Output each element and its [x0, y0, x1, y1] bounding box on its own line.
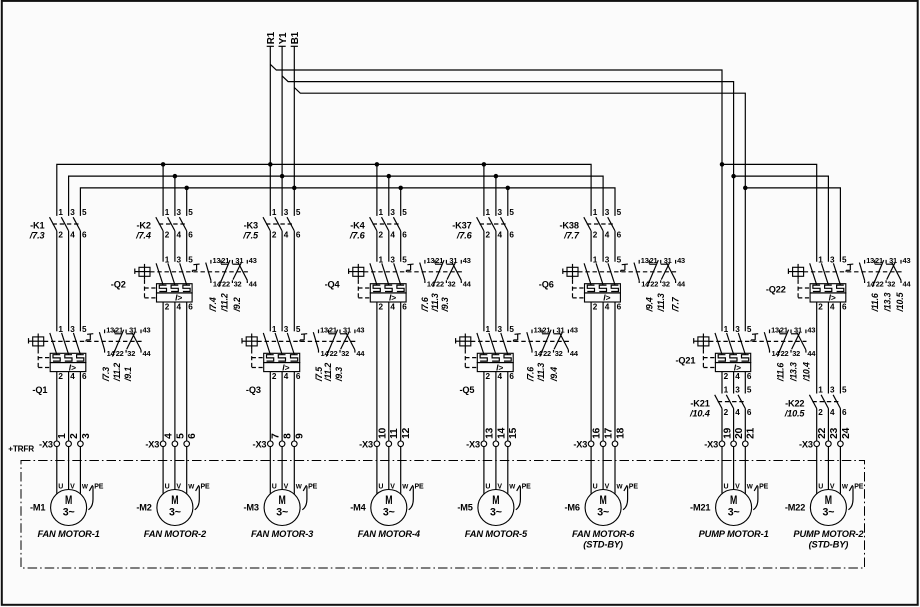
svg-text:PE: PE — [854, 484, 864, 491]
wire — [507, 231, 509, 331]
svg-text:3~: 3~ — [490, 506, 502, 518]
wire — [744, 372, 746, 394]
svg-text:/11.3: /11.3 — [536, 363, 546, 382]
svg-text:1: 1 — [486, 325, 491, 334]
svg-text:/11.2: /11.2 — [220, 293, 230, 312]
svg-text:1: 1 — [593, 255, 598, 264]
svg-text:I>: I> — [603, 293, 610, 303]
svg-text:2: 2 — [724, 408, 729, 417]
svg-text:-M3: -M3 — [244, 503, 259, 513]
svg-text:-M4: -M4 — [350, 503, 366, 513]
svg-text:1: 1 — [272, 325, 277, 334]
svg-text:5: 5 — [188, 255, 193, 264]
svg-text:2: 2 — [379, 302, 384, 311]
svg-text:2: 2 — [486, 231, 491, 240]
circuit breaker Q2 — [111, 255, 248, 311]
svg-text:U: U — [58, 484, 63, 491]
terminal X30:1-3 — [39, 433, 92, 450]
svg-text:2: 2 — [593, 231, 598, 240]
svg-text:12: 12 — [401, 427, 412, 439]
svg-text:-Q6: -Q6 — [539, 280, 554, 290]
svg-text:20: 20 — [734, 427, 745, 439]
wire — [721, 409, 723, 442]
svg-text:5: 5 — [617, 255, 622, 264]
svg-text:4: 4 — [830, 408, 835, 417]
svg-text:/7.4: /7.4 — [135, 231, 151, 241]
svg-text:FAN MOTOR-1: FAN MOTOR-1 — [37, 529, 99, 539]
svg-text:3: 3 — [390, 255, 395, 264]
wire — [281, 447, 283, 490]
svg-text:32: 32 — [341, 349, 349, 358]
svg-text:5: 5 — [617, 208, 622, 217]
svg-text:6: 6 — [747, 372, 752, 381]
svg-text:32: 32 — [662, 279, 670, 288]
svg-text:Y1: Y1 — [278, 32, 289, 44]
svg-text:/7.6: /7.6 — [525, 367, 535, 382]
svg-text:-X3: -X3 — [145, 440, 159, 450]
wire — [162, 302, 164, 441]
svg-text:43: 43 — [463, 256, 471, 265]
svg-text:22: 22 — [650, 279, 658, 288]
enclosure +TRFR boundary — [21, 461, 865, 569]
svg-text:PE: PE — [415, 484, 425, 491]
node junction — [506, 186, 511, 191]
svg-text:22: 22 — [330, 349, 338, 358]
svg-text:6: 6 — [187, 433, 198, 439]
svg-text:1: 1 — [58, 325, 63, 334]
node junction — [482, 162, 487, 167]
svg-text:43: 43 — [570, 326, 578, 335]
aux contacts Q2 — [192, 256, 257, 313]
bus phase 3 — [80, 188, 615, 216]
svg-text:3: 3 — [177, 255, 182, 264]
wire — [733, 372, 735, 394]
svg-text:FAN MOTOR-5: FAN MOTOR-5 — [465, 529, 528, 539]
wire — [68, 447, 70, 490]
wire — [721, 447, 723, 494]
svg-text:5: 5 — [402, 255, 407, 264]
svg-text:44: 44 — [356, 349, 365, 358]
circuit breaker Q3 — [242, 325, 356, 395]
svg-text:/9.2: /9.2 — [232, 297, 242, 312]
svg-text:1: 1 — [818, 386, 823, 395]
svg-text:19: 19 — [722, 427, 733, 439]
svg-text:FAN MOTOR-3: FAN MOTOR-3 — [251, 529, 314, 539]
wire — [614, 231, 616, 262]
wire — [602, 231, 604, 262]
svg-text:/10.4: /10.4 — [801, 362, 811, 382]
svg-text:3: 3 — [605, 208, 610, 217]
net B1 — [290, 31, 301, 46]
svg-text:6: 6 — [617, 302, 622, 311]
svg-text:43: 43 — [249, 256, 257, 265]
svg-text:5: 5 — [296, 208, 301, 217]
circuit breaker Q6 — [539, 255, 676, 311]
svg-text:/13.3: /13.3 — [882, 292, 892, 312]
node junction — [398, 186, 403, 191]
svg-text:13: 13 — [866, 256, 874, 265]
svg-text:32: 32 — [555, 349, 563, 358]
svg-text:6: 6 — [82, 231, 87, 240]
svg-text:I>: I> — [282, 362, 289, 372]
svg-text:-X3: -X3 — [359, 440, 373, 450]
svg-text:6: 6 — [747, 408, 752, 417]
svg-text:-X3: -X3 — [39, 440, 53, 450]
svg-text:32: 32 — [887, 279, 895, 288]
svg-text:4: 4 — [177, 302, 182, 311]
svg-text:-K2: -K2 — [136, 221, 150, 231]
svg-text:/11.6: /11.6 — [870, 293, 880, 312]
svg-text:M: M — [600, 493, 607, 507]
svg-text:/9.3: /9.3 — [334, 367, 344, 382]
wire — [79, 447, 81, 494]
svg-text:44: 44 — [463, 279, 472, 288]
svg-text:3~: 3~ — [169, 506, 181, 518]
svg-text:1: 1 — [165, 255, 170, 264]
svg-text:PE: PE — [522, 484, 532, 491]
aux contacts Q5 — [514, 326, 579, 383]
wire — [79, 372, 81, 441]
svg-text:-Q5: -Q5 — [460, 385, 475, 395]
svg-text:-X3: -X3 — [799, 440, 813, 450]
wire tap branch 2 — [162, 164, 164, 216]
wire — [483, 231, 485, 331]
svg-text:V: V — [830, 484, 835, 491]
wire — [281, 231, 283, 331]
wire — [68, 231, 70, 331]
svg-text:PE: PE — [94, 484, 104, 491]
aux contacts Q1 — [86, 326, 151, 383]
svg-text:I>: I> — [69, 362, 76, 372]
svg-text:-X3: -X3 — [704, 440, 718, 450]
svg-text:V: V — [497, 484, 502, 491]
svg-text:/13.3: /13.3 — [788, 362, 798, 382]
svg-text:M: M — [825, 493, 832, 507]
svg-text:/9.4: /9.4 — [549, 367, 559, 382]
svg-text:4: 4 — [735, 408, 740, 417]
aux contacts Q3 — [300, 326, 365, 383]
svg-text:13: 13 — [771, 326, 779, 335]
terminal X30:13-15 — [466, 427, 519, 449]
svg-text:6: 6 — [402, 231, 407, 240]
svg-text:(STD-BY): (STD-BY) — [809, 540, 849, 550]
svg-text:43: 43 — [356, 326, 364, 335]
svg-text:FAN MOTOR-6: FAN MOTOR-6 — [572, 529, 635, 539]
wire — [56, 447, 58, 494]
svg-text:-M21: -M21 — [690, 503, 710, 513]
wire — [162, 447, 164, 494]
svg-text:22: 22 — [543, 349, 551, 358]
node junction — [731, 174, 736, 179]
motor M4 — [350, 484, 424, 540]
svg-text:-M1: -M1 — [30, 503, 45, 513]
svg-text:5: 5 — [842, 255, 847, 264]
svg-text:V: V — [284, 484, 289, 491]
svg-text:32: 32 — [792, 349, 800, 358]
svg-text:6: 6 — [509, 372, 514, 381]
svg-text:4: 4 — [390, 302, 395, 311]
wire — [400, 447, 402, 494]
svg-text:4: 4 — [284, 372, 289, 381]
svg-text:6: 6 — [82, 372, 87, 381]
svg-text:/7.6: /7.6 — [349, 231, 366, 241]
svg-text:17: 17 — [604, 427, 615, 439]
svg-text:4: 4 — [70, 231, 75, 240]
wire — [68, 372, 70, 441]
svg-text:3~: 3~ — [383, 506, 395, 518]
contactor K1 — [29, 208, 87, 241]
motor M22 — [785, 484, 865, 550]
svg-text:I>: I> — [734, 362, 741, 372]
wire — [269, 447, 271, 494]
svg-text:-X3: -X3 — [253, 440, 267, 450]
svg-text:3~: 3~ — [728, 506, 740, 518]
svg-text:/10.5: /10.5 — [784, 408, 806, 418]
svg-text:PE: PE — [629, 484, 639, 491]
svg-text:13: 13 — [320, 326, 328, 335]
wire — [827, 409, 829, 442]
svg-text:32: 32 — [127, 349, 135, 358]
svg-text:3~: 3~ — [276, 506, 288, 518]
wire B1 jog to feeder — [294, 88, 745, 332]
wire — [590, 231, 592, 262]
contactor K37 — [452, 208, 514, 241]
wire tap branch 4 — [376, 164, 378, 216]
net Y1 — [278, 32, 289, 46]
svg-text:5: 5 — [747, 386, 752, 395]
wire tap to Q22 phase 3 — [745, 188, 840, 262]
aux contacts Q6 — [621, 256, 686, 313]
svg-text:/10.5: /10.5 — [895, 292, 905, 312]
svg-text:-X3: -X3 — [466, 440, 480, 450]
svg-text:-Q2: -Q2 — [111, 280, 126, 290]
bus phase 2 — [69, 176, 604, 216]
svg-text:10: 10 — [377, 427, 388, 439]
svg-text:6: 6 — [402, 302, 407, 311]
svg-text:PUMP MOTOR-2: PUMP MOTOR-2 — [793, 529, 864, 539]
svg-text:-K3: -K3 — [244, 221, 258, 231]
svg-text:4: 4 — [177, 231, 182, 240]
node junction branch 3 — [268, 162, 273, 167]
wire — [816, 302, 818, 394]
terminal X30:7-9 — [253, 433, 306, 450]
motor M5 — [457, 484, 531, 540]
wire tap branch 5 — [507, 188, 509, 216]
wire B1 vertical — [293, 46, 295, 216]
wire — [174, 302, 176, 441]
wire — [400, 231, 402, 262]
motor M3 — [244, 484, 318, 540]
wire — [293, 231, 295, 331]
wire — [269, 231, 271, 331]
svg-text:2: 2 — [165, 302, 170, 311]
svg-text:U: U — [485, 484, 490, 491]
svg-text:4: 4 — [605, 302, 610, 311]
svg-text:4: 4 — [390, 231, 395, 240]
svg-text:6: 6 — [188, 302, 193, 311]
wire — [400, 302, 402, 441]
wire — [483, 372, 485, 441]
svg-text:/11.6: /11.6 — [775, 363, 785, 382]
contactor K4 — [349, 208, 407, 241]
svg-text:7: 7 — [271, 433, 282, 439]
svg-text:/11.3: /11.3 — [656, 293, 666, 312]
wire — [816, 409, 818, 442]
svg-text:18: 18 — [615, 427, 626, 439]
motor M1 — [30, 484, 104, 540]
svg-text:13: 13 — [106, 326, 114, 335]
aux contacts Q22 — [846, 256, 911, 313]
contactor K21 — [689, 386, 752, 419]
svg-text:+TRFR: +TRFR — [8, 445, 34, 454]
svg-text:5: 5 — [509, 325, 514, 334]
wire — [614, 447, 616, 494]
wire — [293, 447, 295, 494]
svg-text:/9.4: /9.4 — [645, 297, 655, 312]
svg-text:4: 4 — [164, 433, 175, 439]
svg-text:-K38: -K38 — [559, 221, 578, 231]
svg-text:23: 23 — [829, 427, 840, 439]
svg-text:2: 2 — [724, 372, 729, 381]
svg-text:6: 6 — [842, 408, 847, 417]
wire — [495, 231, 497, 331]
motor M21 — [690, 484, 769, 540]
svg-text:5: 5 — [188, 208, 193, 217]
svg-text:3: 3 — [284, 325, 289, 334]
svg-text:/9.3: /9.3 — [440, 297, 450, 312]
circuit breaker Q1 — [29, 325, 142, 395]
bus phase 1 — [57, 164, 591, 216]
svg-text:M: M — [385, 493, 392, 507]
svg-text:I>: I> — [496, 362, 503, 372]
svg-text:6: 6 — [188, 231, 193, 240]
wire — [827, 302, 829, 394]
circuit breaker Q21 — [675, 325, 806, 381]
svg-text:M: M — [730, 493, 737, 507]
contactor K2 — [135, 208, 193, 241]
svg-text:3: 3 — [830, 386, 835, 395]
node junction — [494, 174, 499, 179]
svg-text:13: 13 — [534, 326, 542, 335]
svg-text:2: 2 — [818, 408, 823, 417]
wire — [174, 447, 176, 490]
svg-text:5: 5 — [82, 325, 87, 334]
svg-text:(STD-BY): (STD-BY) — [583, 540, 623, 550]
svg-text:U: U — [593, 484, 598, 491]
svg-text:11: 11 — [389, 428, 400, 439]
wire — [507, 447, 509, 494]
circuit breaker Q5 — [456, 325, 569, 395]
svg-text:PE: PE — [308, 484, 318, 491]
wire — [281, 372, 283, 441]
node junction — [387, 174, 392, 179]
svg-text:-Q21: -Q21 — [675, 356, 695, 366]
contactor K3 — [242, 208, 301, 241]
svg-text:43: 43 — [903, 256, 911, 265]
svg-text:4: 4 — [284, 231, 289, 240]
wire — [590, 447, 592, 494]
svg-text:44: 44 — [249, 279, 258, 288]
svg-text:13: 13 — [213, 256, 221, 265]
wire — [186, 302, 188, 441]
wire tap branch 2 — [186, 188, 188, 216]
svg-text:3: 3 — [390, 208, 395, 217]
svg-text:/7.6: /7.6 — [420, 297, 430, 312]
wire — [744, 447, 746, 494]
svg-text:6: 6 — [842, 302, 847, 311]
svg-text:22: 22 — [876, 279, 884, 288]
wire R1 vertical — [269, 46, 271, 216]
wire — [186, 447, 188, 494]
svg-text:3: 3 — [735, 325, 740, 334]
wire Y1 jog to feeder — [282, 76, 733, 331]
svg-text:3: 3 — [605, 255, 610, 264]
wire — [376, 302, 378, 441]
svg-text:5: 5 — [842, 386, 847, 395]
wire — [590, 302, 592, 441]
svg-text:3: 3 — [498, 325, 503, 334]
svg-text:4: 4 — [830, 302, 835, 311]
svg-text:3: 3 — [70, 325, 75, 334]
svg-text:2: 2 — [272, 372, 277, 381]
svg-text:I>: I> — [829, 293, 836, 303]
svg-text:-M22: -M22 — [785, 503, 805, 513]
wire tap branch 4 — [388, 176, 390, 216]
svg-text:R1: R1 — [266, 31, 277, 44]
svg-text:6: 6 — [617, 231, 622, 240]
svg-text:M: M — [492, 493, 499, 507]
node junction — [173, 174, 178, 179]
svg-text:9: 9 — [295, 433, 306, 439]
svg-text:/7.4: /7.4 — [208, 297, 218, 312]
svg-text:-Q4: -Q4 — [325, 280, 341, 290]
wire — [376, 231, 378, 262]
wire — [839, 302, 841, 394]
svg-text:-M2: -M2 — [136, 503, 151, 513]
wire — [614, 302, 616, 441]
svg-text:24: 24 — [841, 427, 852, 439]
node junction — [720, 162, 725, 167]
svg-text:5: 5 — [509, 208, 514, 217]
svg-text:14: 14 — [496, 427, 507, 439]
svg-text:M: M — [279, 493, 286, 507]
svg-text:U: U — [724, 484, 729, 491]
wire — [376, 447, 378, 494]
aux contacts Q21 — [751, 326, 816, 383]
svg-text:2: 2 — [272, 231, 277, 240]
wire tap branch 4 — [400, 188, 402, 216]
svg-text:22: 22 — [817, 427, 828, 439]
svg-text:-Q3: -Q3 — [246, 385, 261, 395]
node junction — [375, 162, 380, 167]
svg-text:V: V — [70, 484, 75, 491]
svg-text:PUMP MOTOR-1: PUMP MOTOR-1 — [699, 529, 769, 539]
motor M6 — [565, 484, 639, 550]
wire — [495, 372, 497, 441]
wire — [162, 231, 164, 262]
svg-text:8: 8 — [283, 433, 294, 439]
svg-text:/7.3: /7.3 — [101, 367, 111, 382]
svg-text:/7.7: /7.7 — [563, 231, 580, 241]
svg-text:-K1: -K1 — [30, 221, 44, 231]
wire — [721, 372, 723, 394]
wire — [495, 447, 497, 490]
wire tap to Q22 phase 1 — [722, 164, 817, 261]
svg-text:1: 1 — [57, 433, 68, 439]
svg-text:22: 22 — [436, 279, 444, 288]
svg-text:U: U — [165, 484, 170, 491]
svg-text:2: 2 — [818, 302, 823, 311]
